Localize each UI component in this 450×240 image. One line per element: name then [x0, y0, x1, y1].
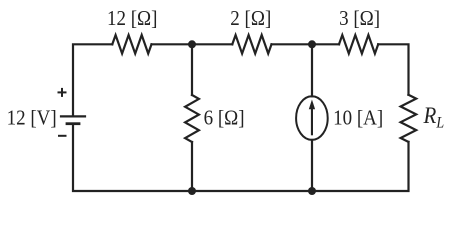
battery V1 long plate	[61, 115, 85, 117]
wire top-left rail to 12-ohm resistor	[73, 44, 112, 115]
bottom node A junction dot	[188, 187, 196, 195]
wire 3-ohm to right rail top	[378, 44, 408, 94]
node A junction dot	[188, 40, 196, 48]
battery minus sign	[58, 135, 67, 137]
resistor R1 12 ohm	[112, 35, 151, 54]
node B junction dot	[308, 40, 316, 48]
wire node B to 3-ohm	[312, 43, 339, 45]
wire 6-ohm down to bottom node A	[191, 142, 193, 191]
resistor R2 2 ohm	[232, 35, 271, 54]
wire 2-ohm to node B	[272, 43, 313, 45]
wire 12-ohm to node A	[152, 43, 193, 45]
svg-text:2 [Ω]: 2 [Ω]	[230, 7, 271, 30]
svg-text:12 [Ω]: 12 [Ω]	[107, 7, 157, 30]
wire node B down to current source	[311, 44, 313, 96]
current source I1 circle	[296, 96, 328, 140]
svg-text:3 [Ω]: 3 [Ω]	[339, 7, 380, 30]
resistor R3 3 ohm	[339, 35, 378, 54]
wire current source to bottom node B	[311, 140, 313, 191]
bottom node B junction dot	[308, 187, 316, 195]
wire bottom node A to node B	[192, 190, 312, 192]
wire node A down to 6-ohm	[191, 44, 193, 95]
resistor R4 6 ohm	[185, 95, 199, 142]
current source I1 arrow	[309, 100, 315, 136]
battery plus sign	[58, 88, 67, 97]
svg-text:6 [Ω]: 6 [Ω]	[204, 107, 245, 130]
resistor RL load	[401, 95, 417, 142]
svg-text:RL: RL	[423, 102, 445, 132]
wire bottom node B to bottom-right corner	[312, 142, 409, 191]
wire node A to 2-ohm	[192, 43, 232, 45]
svg-text:10 [A]: 10 [A]	[333, 107, 383, 130]
wire battery to bottom-left corner	[73, 124, 192, 191]
battery V1 short plate	[67, 122, 79, 125]
svg-text:12 [V]: 12 [V]	[7, 107, 57, 130]
